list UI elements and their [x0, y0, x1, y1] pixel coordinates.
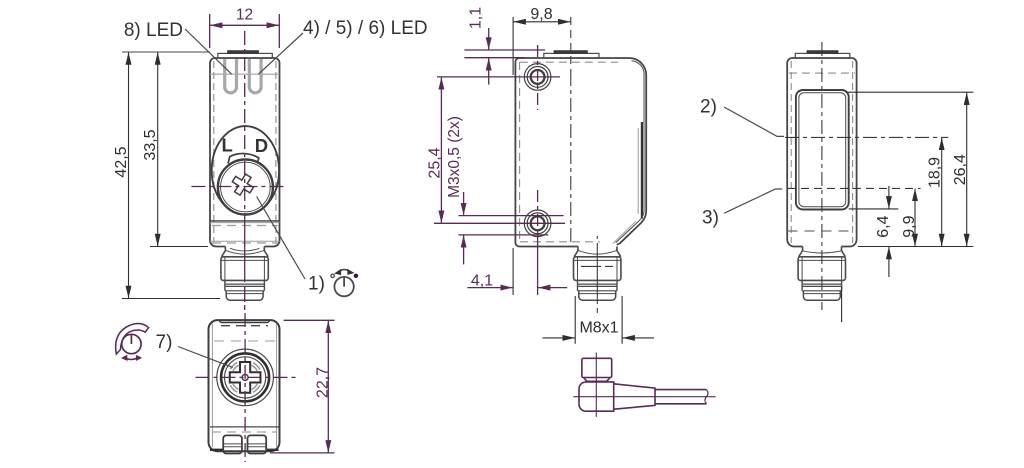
svg-text:12: 12 [236, 7, 253, 24]
svg-text:9,8: 9,8 [530, 6, 552, 23]
svg-text:M8x1: M8x1 [579, 320, 618, 337]
svg-text:8) LED: 8) LED [124, 20, 183, 41]
svg-text:4) / 5) / 6) LED: 4) / 5) / 6) LED [303, 18, 428, 39]
svg-text:3): 3) [702, 208, 719, 229]
svg-text:D: D [255, 135, 268, 156]
svg-text:25,4: 25,4 [426, 147, 443, 178]
svg-text:1,1: 1,1 [468, 7, 485, 29]
svg-text:6,4: 6,4 [875, 215, 892, 237]
svg-text:4,1: 4,1 [471, 273, 493, 290]
svg-text:L: L [222, 135, 233, 156]
svg-text:42,5: 42,5 [113, 146, 130, 177]
svg-text:18,9: 18,9 [927, 157, 944, 188]
svg-text:26,4: 26,4 [952, 154, 969, 185]
svg-text:M3x0,5 (2x): M3x0,5 (2x) [446, 116, 463, 198]
svg-text:7): 7) [156, 332, 173, 353]
svg-text:9,9: 9,9 [901, 215, 918, 237]
svg-text:1): 1) [308, 274, 325, 295]
svg-text:2): 2) [700, 97, 717, 118]
svg-text:22,7: 22,7 [314, 367, 331, 398]
svg-text:33,5: 33,5 [142, 129, 159, 160]
